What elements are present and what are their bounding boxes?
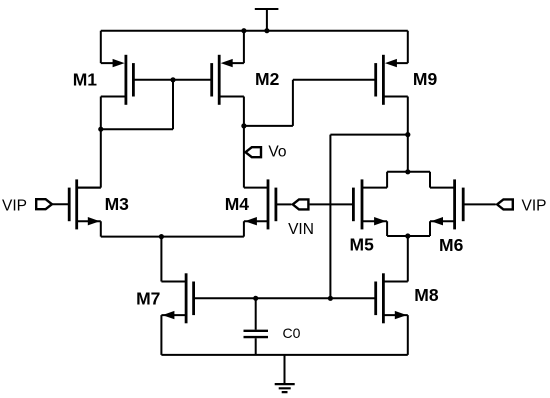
wire VIN port to M5 gate: [310, 203, 354, 205]
ground: [275, 355, 295, 392]
svg-text:VIP: VIP: [522, 197, 547, 214]
junction dot M5/M6 drain: [405, 169, 410, 174]
junction dot gate line / C0: [253, 296, 258, 301]
wire M6 gate to VIP port: [463, 203, 496, 205]
svg-text:VIP: VIP: [2, 197, 27, 214]
wire bottom ground rail: [161, 354, 407, 356]
transistor M8 (NMOS): [376, 273, 407, 323]
svg-text:M5: M5: [350, 235, 375, 255]
transistor M1 (PMOS, diode-connected): [113, 55, 134, 105]
svg-text:C0: C0: [283, 325, 301, 341]
wire tail dot down to M7 drain: [161, 237, 186, 282]
transistor M6 (NMOS): [431, 179, 463, 229]
transistor M5 (NMOS): [353, 179, 386, 229]
junction dot M1 gate tie: [170, 77, 175, 82]
wire M2 source to rail: [229, 31, 244, 63]
wire M4 gate to VIN port: [276, 203, 292, 205]
wire M4 source to tail: [244, 221, 268, 236]
wire M7 source down to ground rail: [161, 315, 186, 355]
wire VO node to M9 gate: [244, 80, 376, 126]
svg-text:VIN: VIN: [288, 221, 314, 238]
wire M2 drain to node VO: [219, 97, 244, 188]
wire M5/M6 drain box top: [387, 171, 430, 173]
wire M6 drain to top box: [430, 172, 455, 188]
svg-text:M4: M4: [225, 194, 250, 214]
wire VIP port to M3 gate: [52, 203, 69, 205]
vdd rail wire: [101, 30, 408, 32]
junction dot rail/supply: [264, 28, 269, 33]
wire M3 source to tail: [77, 221, 101, 236]
wire M7/M8 gate line: [194, 297, 376, 299]
wire M8 drain up to M5/M6 source: [383, 236, 407, 282]
transistor M4 (NMOS): [245, 179, 276, 229]
wire M4 drain lead: [244, 187, 268, 189]
wire tail line M3/M4: [101, 236, 244, 238]
svg-text:M1: M1: [73, 70, 98, 90]
wire M1 source to rail: [101, 31, 116, 63]
wire M9 drain down: [383, 97, 407, 172]
wire M8 source down to ground rail: [383, 315, 407, 355]
svg-text:M2: M2: [255, 69, 280, 89]
wire M9 drain node to second stage gate line: [330, 135, 407, 299]
wire M5 drain to top box: [362, 172, 387, 188]
transistor M3 (NMOS): [69, 179, 100, 229]
junction dot M1 drain node: [98, 127, 103, 132]
port Vo: [246, 147, 262, 157]
transistor M9 (PMOS): [376, 55, 397, 105]
junction dot gate line / M9 drain wire: [328, 296, 333, 301]
wire M3 drain lead: [77, 187, 101, 189]
wire gate-drain tie of M1: [101, 80, 173, 129]
junction dot M5/M6 source: [405, 233, 410, 238]
port VIN: [293, 199, 309, 209]
vdd supply symbol: [255, 9, 279, 31]
svg-text:M7: M7: [136, 289, 160, 309]
svg-text:M9: M9: [413, 69, 438, 89]
port VIP left: [36, 199, 52, 209]
port VIP right: [497, 199, 513, 209]
junction dot rail/M2 source: [241, 28, 246, 33]
junction dot node VO: [241, 123, 246, 128]
svg-text:M6: M6: [439, 235, 464, 255]
wire M9 source to rail: [393, 31, 408, 63]
wire M5 source to bottom box: [362, 221, 387, 236]
svg-text:M8: M8: [414, 285, 439, 305]
wire M6 source to bottom box: [430, 221, 455, 236]
wire M1-M2 gate bus: [133, 79, 211, 81]
transistor M7 (NMOS): [162, 273, 193, 323]
wire M1 drain down to M3 drain: [77, 97, 126, 188]
wire M5/M6 source box bottom: [387, 235, 430, 237]
svg-text:Vo: Vo: [268, 143, 286, 160]
capacitor C0: [244, 298, 269, 355]
svg-text:M3: M3: [105, 194, 130, 214]
junction dot M9 drain node: [405, 132, 410, 137]
transistor M2 (PMOS): [212, 55, 233, 105]
junction dot tail: [159, 234, 164, 239]
